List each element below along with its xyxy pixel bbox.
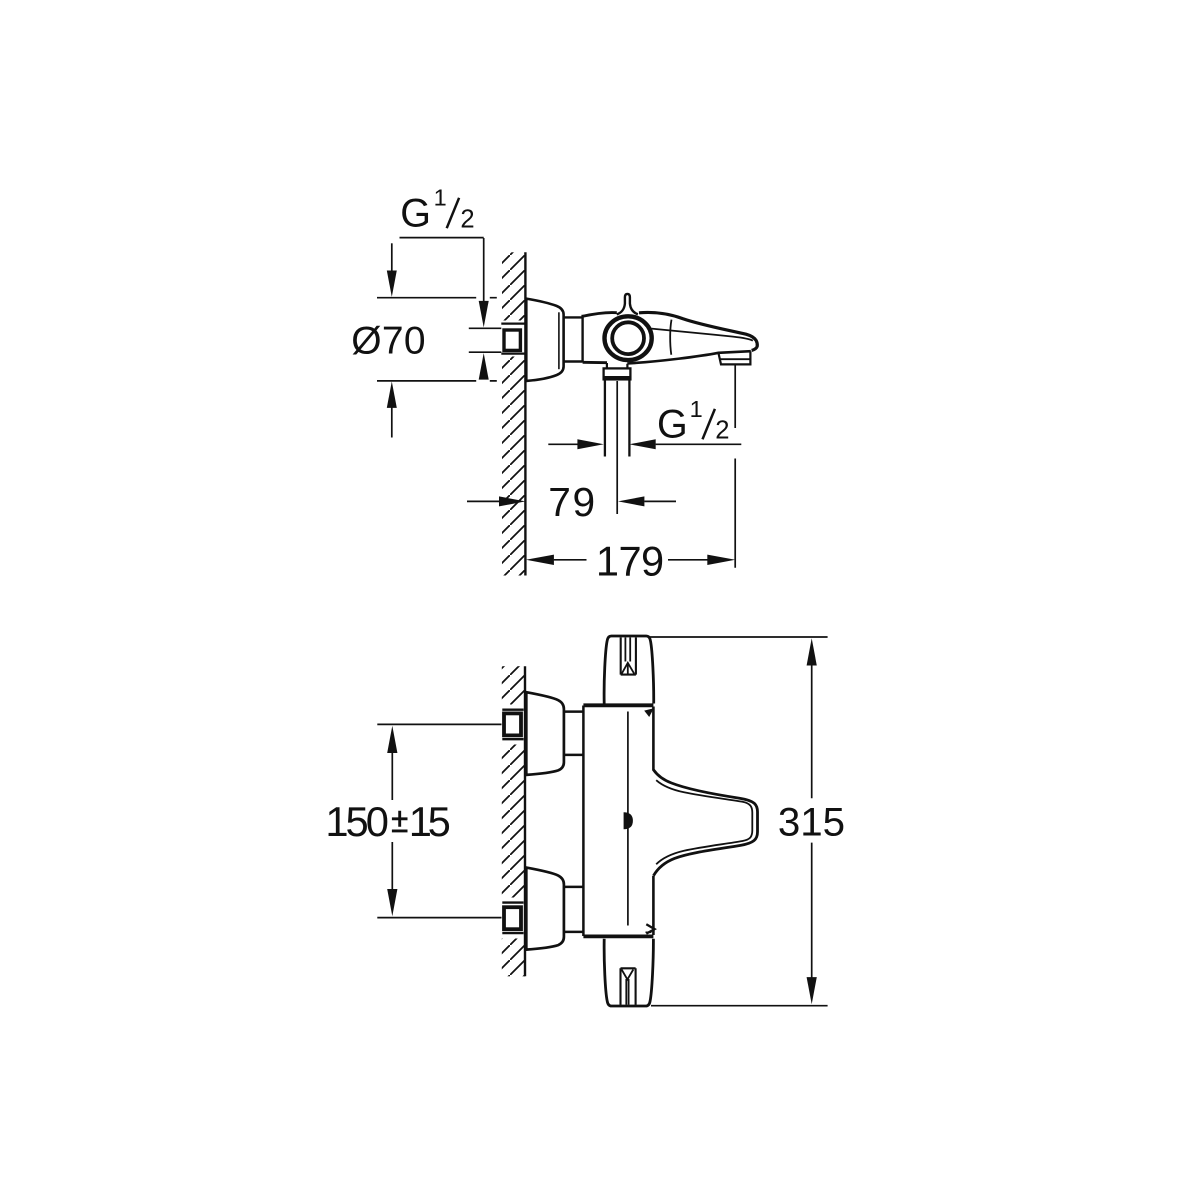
179 right extension line <box>734 365 736 568</box>
arrow down at fitting top <box>479 301 489 328</box>
G 1/2 label top <box>400 185 474 236</box>
315 dim line upper <box>811 665 813 799</box>
body fill <box>583 706 653 937</box>
body left edge <box>581 315 583 362</box>
body bottom edge <box>583 935 653 939</box>
arrow up at fitting bottom <box>479 353 489 380</box>
small arrow on body top right <box>644 708 654 717</box>
shower outlet neck <box>607 363 628 368</box>
upper escutcheon (front view) <box>526 692 564 775</box>
upper union nut <box>502 709 523 711</box>
outlet pipe center line <box>616 381 618 514</box>
lower union nut <box>502 901 523 903</box>
svg-text:G: G <box>657 402 688 446</box>
arrows G1/2 outlet <box>577 439 603 449</box>
arrow up at 315 top <box>807 638 817 665</box>
wall hatching (top view) <box>502 252 525 575</box>
escutcheon (top view) <box>526 299 563 381</box>
G1/2 top dim line <box>400 237 484 239</box>
white surrounds of nuts <box>501 705 526 745</box>
svg-text:2: 2 <box>460 205 474 233</box>
svg-text:150: 150 <box>325 798 389 845</box>
upper handle grip mark <box>621 638 636 675</box>
escutcheon bottom extension line <box>377 380 497 382</box>
lower handle grip mark <box>621 968 636 1005</box>
svg-text:79: 79 <box>548 479 595 525</box>
svg-text:1: 1 <box>690 396 703 422</box>
315 lower extension line <box>651 1005 828 1007</box>
spout outline (front view) <box>654 770 758 876</box>
spout crease line <box>670 320 671 355</box>
179 dim lines <box>554 559 587 561</box>
lower handle <box>604 939 653 1006</box>
outlet collar <box>604 368 631 379</box>
arrow up at 150 top <box>387 726 397 753</box>
escutcheon inner edge line <box>558 312 560 369</box>
fitting top extension line <box>469 327 502 329</box>
body right edge lower <box>652 876 655 935</box>
150 dim line upper <box>391 753 393 801</box>
aerator at spout tip <box>718 351 750 364</box>
arrow down at 150 bottom <box>387 889 397 916</box>
handle ring outer <box>605 316 652 360</box>
arrow shaft left <box>391 243 393 271</box>
svg-text:15: 15 <box>409 798 451 845</box>
upper connection pipe <box>565 712 583 755</box>
wall line (top view) <box>524 252 526 575</box>
G1/2 fitting pipe lines <box>501 324 525 354</box>
150 dim line lower <box>391 842 393 890</box>
svg-text:315: 315 <box>778 800 845 845</box>
arrow up at escutcheon bottom <box>387 382 397 408</box>
small chevron on body bottom right <box>646 924 654 933</box>
thermostat lever <box>617 294 638 315</box>
spout underside (top view) <box>627 351 751 363</box>
spout top silhouette <box>639 312 757 350</box>
arrows 79 <box>499 496 525 506</box>
G1/2 fitting square nut <box>504 330 520 350</box>
svg-text:2: 2 <box>715 417 729 445</box>
chevron tail dash <box>646 931 652 933</box>
lower connection pipe <box>565 887 583 932</box>
G1/2 outlet dim lines <box>548 443 577 445</box>
svg-text:Ø70: Ø70 <box>351 320 425 363</box>
body right edge upper <box>652 707 655 771</box>
spout outlet dark mark <box>624 812 633 829</box>
leader down from dim line right end <box>483 238 485 301</box>
315 dim line lower <box>811 843 813 978</box>
inlet cylinder <box>564 317 583 361</box>
150±15 label <box>325 798 450 845</box>
svg-text:1: 1 <box>434 185 447 211</box>
315 upper extension line <box>649 636 827 638</box>
wall line (front view) <box>524 666 526 976</box>
lower escutcheon (front view) <box>526 868 564 950</box>
150 upper extension line <box>377 723 501 725</box>
upper handle <box>604 636 654 704</box>
arrows 179 <box>526 555 554 565</box>
body top edge left of lever <box>583 313 617 317</box>
white surround of G1/2 fitting <box>497 321 526 357</box>
wall hatching (front view) <box>502 666 525 976</box>
spout inner line (front view) <box>656 780 752 864</box>
body front crease line <box>627 712 629 926</box>
body left edge <box>582 706 585 937</box>
body bottom edge left of outlet <box>583 361 607 364</box>
spout top face line <box>652 329 753 341</box>
outlet pipe <box>605 380 630 457</box>
fitting bottom extension line <box>469 351 502 353</box>
79 dim lines <box>467 500 499 502</box>
body top edge <box>583 703 653 707</box>
svg-text:179: 179 <box>596 537 664 584</box>
arrow down at escutcheon top <box>387 271 397 297</box>
G 1/2 label shower outlet <box>657 396 730 447</box>
150 lower extension line <box>377 917 501 919</box>
lower arrow shaft left <box>391 408 393 438</box>
escutcheon top extension line <box>377 297 497 299</box>
svg-text:G: G <box>400 191 431 235</box>
arrow down at 315 bottom <box>807 977 817 1004</box>
handle ring inner <box>612 322 644 354</box>
